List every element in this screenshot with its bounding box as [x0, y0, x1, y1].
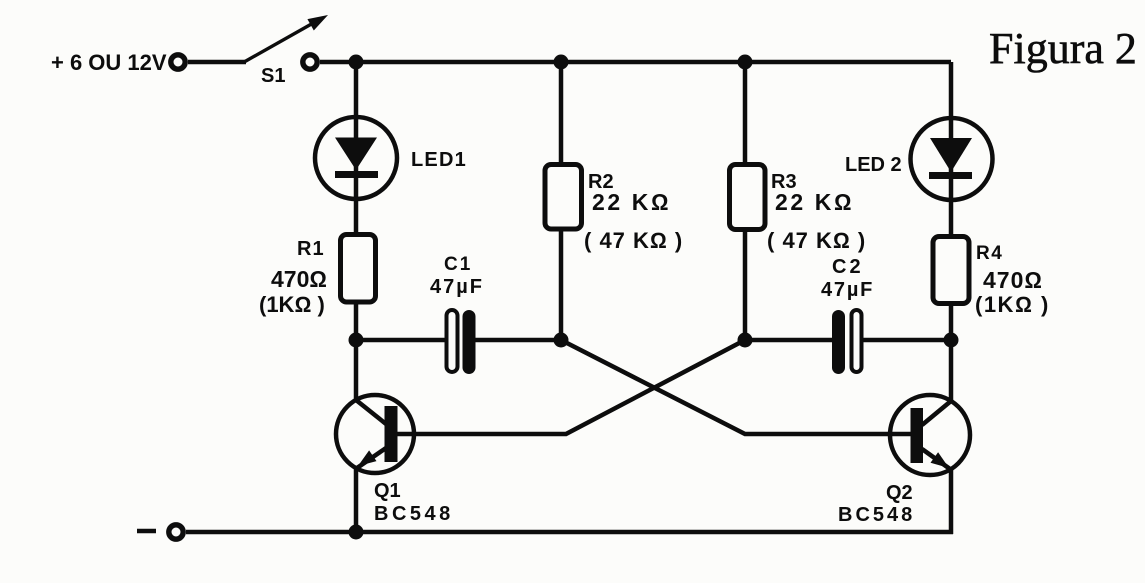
svg-text:LED 2: LED 2	[845, 154, 902, 176]
svg-text:R1: R1	[297, 238, 325, 260]
svg-text:( 47 KΩ ): ( 47 KΩ )	[767, 228, 866, 253]
svg-text:Q1: Q1	[374, 480, 401, 502]
svg-text:(1KΩ ): (1KΩ )	[975, 292, 1050, 317]
svg-text:S1: S1	[261, 65, 285, 87]
svg-text:BC548: BC548	[838, 504, 915, 526]
svg-text:+ 6 OU 12V: + 6 OU 12V	[51, 50, 167, 75]
svg-text:R4: R4	[976, 243, 1003, 264]
svg-text:47µF: 47µF	[821, 279, 874, 301]
svg-text:47µF: 47µF	[430, 276, 484, 298]
svg-text:( 47 KΩ ): ( 47 KΩ )	[584, 228, 683, 253]
svg-text:C2: C2	[832, 256, 864, 278]
svg-text:C1: C1	[444, 254, 472, 275]
svg-text:Q2: Q2	[886, 482, 913, 504]
svg-text:Figura 2: Figura 2	[989, 24, 1137, 73]
svg-text:BC548: BC548	[374, 503, 454, 525]
svg-text:LED1: LED1	[411, 149, 467, 171]
svg-text:470Ω: 470Ω	[271, 266, 327, 292]
svg-text:22 KΩ: 22 KΩ	[592, 189, 671, 215]
svg-text:22 KΩ: 22 KΩ	[775, 189, 854, 215]
svg-text:(1KΩ ): (1KΩ )	[259, 292, 325, 317]
svg-text:470Ω: 470Ω	[983, 267, 1043, 293]
